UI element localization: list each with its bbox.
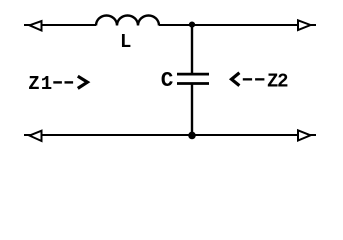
label <--Z2 : arrow glyph < bbox=[232, 73, 240, 86]
wire top segment left of inductor bbox=[42, 24, 96, 26]
arrowhead bottom-right (output) bbox=[298, 130, 311, 140]
wire top-right stub through arrow tip bbox=[308, 24, 316, 26]
svg-text:L: L bbox=[120, 31, 131, 53]
arrowhead top-left (input) bbox=[30, 21, 42, 31]
inductor L bbox=[96, 16, 159, 26]
capacitor C bottom plate bbox=[177, 82, 209, 85]
wire top-left stub through arrow tip bbox=[24, 24, 32, 26]
label <--Z2 : dash 1 bbox=[243, 78, 252, 80]
wire capacitor top lead bbox=[191, 25, 193, 73]
wire bottom bbox=[43, 134, 298, 136]
svg-text:C: C bbox=[161, 70, 174, 93]
capacitor C top plate bbox=[177, 73, 209, 76]
svg-text:2: 2 bbox=[277, 70, 288, 92]
label <--Z2 : dash 2 bbox=[255, 78, 264, 80]
svg-text:1: 1 bbox=[41, 73, 52, 95]
junction node top bbox=[189, 22, 195, 28]
wire top segment right of inductor bbox=[159, 24, 298, 26]
wire bottom-left stub through arrow tip bbox=[24, 134, 32, 136]
arrowhead top-right (output) bbox=[298, 20, 311, 30]
wire bottom-right stub through arrow tip bbox=[308, 134, 316, 136]
svg-text:Z: Z bbox=[28, 73, 39, 95]
junction node bottom bbox=[188, 132, 196, 140]
wire capacitor bottom lead bbox=[191, 84, 193, 135]
arrowhead bottom-left (input) bbox=[30, 131, 42, 141]
